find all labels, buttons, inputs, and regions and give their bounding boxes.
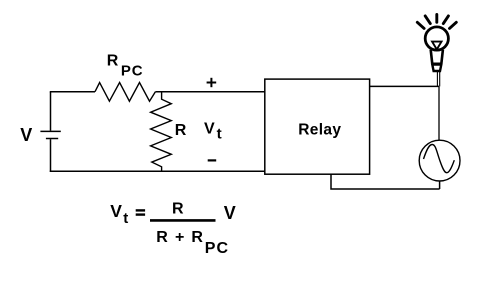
svg-text:R: R xyxy=(175,122,187,139)
svg-text:PC: PC xyxy=(205,240,229,257)
AC source (sine generator) xyxy=(419,140,460,181)
svg-text:V: V xyxy=(110,201,122,221)
relay box U1 xyxy=(265,79,370,174)
battery source V xyxy=(40,92,60,172)
svg-text:V: V xyxy=(204,121,215,138)
label Vt (terminal voltage) xyxy=(204,121,222,143)
formula Vt = R/(R+RPC) V xyxy=(110,201,128,227)
svg-text:PC: PC xyxy=(121,63,144,80)
svg-text:Relay: Relay xyxy=(298,121,341,138)
wire lamp to AC source xyxy=(438,86,440,140)
lamp DS1 (light bulb) xyxy=(425,27,448,71)
resistor RPC (photoconductive cell) xyxy=(95,83,155,102)
wire top (node to relay) xyxy=(155,91,264,93)
minus sign xyxy=(208,159,217,161)
formula equals sign xyxy=(136,210,145,214)
label RPC xyxy=(107,53,144,80)
svg-text:R: R xyxy=(172,201,184,218)
svg-text:+: + xyxy=(175,229,184,246)
wire relay to lamp junction xyxy=(370,85,439,87)
wire AC source bottom stub xyxy=(439,181,441,189)
plus sign xyxy=(207,78,217,87)
svg-text:V: V xyxy=(20,125,32,145)
formula fraction bar xyxy=(150,219,216,222)
svg-text:R: R xyxy=(107,53,119,70)
wire relay bottom tap xyxy=(331,174,440,189)
svg-text:R: R xyxy=(191,229,203,246)
svg-text:t: t xyxy=(123,210,128,227)
resistor R (vertical) xyxy=(151,92,172,172)
wire top-left xyxy=(50,91,95,93)
svg-text:V: V xyxy=(224,203,236,223)
wire lamp leads (double) xyxy=(437,72,439,87)
svg-text:t: t xyxy=(217,126,222,143)
wire bottom xyxy=(50,170,265,172)
svg-text:R: R xyxy=(156,229,168,246)
lamp rays xyxy=(417,15,456,29)
